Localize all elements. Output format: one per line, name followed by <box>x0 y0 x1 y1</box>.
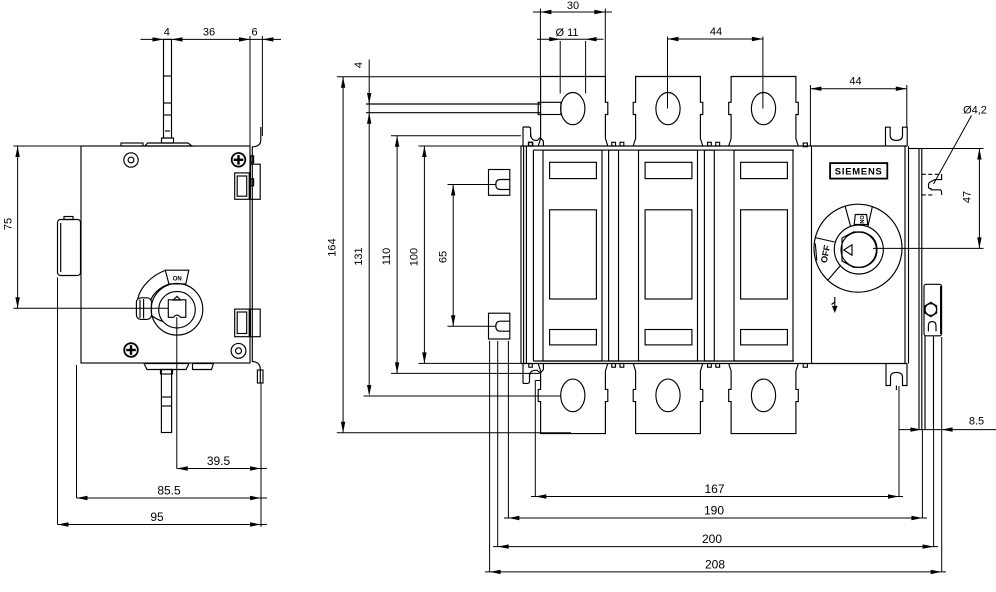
svg-text:OFF: OFF <box>819 244 833 264</box>
front view fuse module 1 <box>543 150 602 361</box>
front view handle OFF flag <box>815 238 840 281</box>
dimension 190 front view <box>504 341 927 520</box>
svg-text:39.5: 39.5 <box>207 454 231 468</box>
dimension 100 front view <box>408 146 521 363</box>
svg-text:4: 4 <box>164 26 170 38</box>
front view fuse rail top <box>533 149 794 151</box>
dimension diameter 11 front view <box>537 27 604 94</box>
dimension 44 handle section <box>810 76 906 147</box>
svg-text:8.5: 8.5 <box>969 416 984 428</box>
svg-text:44: 44 <box>849 76 861 88</box>
front view barrier 1 <box>609 150 619 361</box>
left view bottom DIN clip <box>235 309 260 337</box>
svg-text:164: 164 <box>327 238 339 256</box>
svg-text:4: 4 <box>353 62 365 68</box>
front view top terminal tab 2 <box>633 77 703 147</box>
svg-text:Ø 11: Ø 11 <box>555 27 578 39</box>
svg-text:75: 75 <box>3 218 15 230</box>
left view bottom shaft <box>161 370 173 433</box>
left view top small tab <box>121 143 143 146</box>
svg-text:47: 47 <box>962 191 974 203</box>
left view body outline <box>81 146 252 363</box>
front view handle panel divider <box>811 146 813 364</box>
front view mounting bracket bar edge-on <box>366 102 561 114</box>
dimension 47 front view <box>873 149 984 249</box>
front view left fixing hook upper <box>489 170 510 196</box>
svg-text:65: 65 <box>438 251 450 263</box>
left view plate clip marks <box>251 156 254 186</box>
left view top DIN clip <box>235 164 260 199</box>
dimension 167 front view <box>531 381 903 499</box>
dimension 4-36-6 top of left view <box>141 26 282 146</box>
front view top edge teeth <box>529 142 808 146</box>
dimension 65 front view <box>438 185 496 327</box>
dimension diameter 4.2 leader <box>934 105 987 185</box>
front view body top edge <box>521 145 907 147</box>
front view right plate spring hook <box>922 174 942 195</box>
front view top terminal tab 3 <box>729 77 799 147</box>
left view side lever bump <box>58 217 81 276</box>
svg-text:200: 200 <box>702 532 722 546</box>
front view fuse rail bottom <box>533 360 794 362</box>
front view trip indicator arrow <box>832 297 837 312</box>
dimension 39.5 left view <box>177 317 267 527</box>
front view bottom terminal tab 2 <box>633 364 703 434</box>
front view body bottom edge <box>521 363 907 365</box>
svg-text:ON: ON <box>173 277 182 283</box>
front view left side plate <box>521 146 526 364</box>
left view bottom shaft tab <box>144 364 189 370</box>
front view right clamp block <box>924 284 942 336</box>
svg-text:44: 44 <box>710 26 722 38</box>
front view rotary handle <box>814 204 902 292</box>
svg-text:Ø4,2: Ø4,2 <box>963 105 987 117</box>
front view top-right mounting tab <box>886 127 908 146</box>
dimension 85.5 left view <box>77 365 268 500</box>
svg-text:167: 167 <box>704 482 724 496</box>
dimension 44 between terminals <box>668 26 763 109</box>
dimension 75 left view <box>3 146 169 308</box>
front view handle ON flag <box>845 206 872 226</box>
front view fuse rail left edge <box>532 150 534 361</box>
left view mounting plate top bend <box>252 127 261 147</box>
front view left fixing hook lower <box>489 313 510 339</box>
svg-text:85.5: 85.5 <box>157 484 181 498</box>
dimension 200 front view <box>493 341 938 549</box>
front view bottom-left mounting piece <box>523 364 543 384</box>
svg-text:190: 190 <box>704 504 724 518</box>
svg-text:110: 110 <box>381 248 393 266</box>
svg-text:30: 30 <box>567 0 579 12</box>
dimension 30 front view <box>533 0 612 77</box>
front view top-left mounting piece <box>523 127 543 146</box>
left view screw bottom-right <box>231 343 246 358</box>
svg-text:100: 100 <box>408 248 420 266</box>
front view fuse module 2 <box>639 150 698 361</box>
left view mounting plate bottom bend and foot <box>252 362 263 384</box>
left view screw top-left <box>124 153 138 167</box>
front view right clamp arm <box>925 336 934 430</box>
svg-text:SIEMENS: SIEMENS <box>835 166 883 177</box>
svg-text:95: 95 <box>150 510 164 524</box>
front view SIEMENS label <box>830 163 887 179</box>
left view bottom second tab <box>193 364 214 370</box>
left view top shaft <box>162 39 174 143</box>
dimension 131 front view <box>353 247 561 396</box>
left view handle ON flag <box>165 270 189 284</box>
front view body right edge <box>905 146 909 364</box>
left view screw bottom-left phillips <box>124 343 138 357</box>
front view right mounting plate <box>909 149 922 431</box>
front view bottom terminal tab 1 <box>538 364 608 434</box>
svg-text:ON: ON <box>858 215 864 223</box>
dimension 208 front view <box>485 337 946 574</box>
front view bottom edge teeth <box>529 364 808 368</box>
dimension 110 front view <box>381 136 540 374</box>
front view bottom-right mounting tab <box>886 364 907 391</box>
left view handle lever arm <box>136 271 168 322</box>
svg-text:208: 208 <box>705 557 725 571</box>
svg-text:6: 6 <box>251 26 257 38</box>
front view bottom terminal tab 3 <box>729 364 799 434</box>
dimension 8.5 front view <box>899 416 996 432</box>
dimension 95 left view <box>58 278 268 527</box>
front view fuse module 3 <box>734 150 793 361</box>
dimension 164 front view <box>327 77 572 433</box>
svg-text:131: 131 <box>353 247 365 265</box>
svg-text:36: 36 <box>203 26 215 38</box>
dimension 4 bracket bar front view <box>353 60 371 391</box>
left view rotary handle knob <box>151 284 203 336</box>
front view barrier 2 <box>704 150 714 361</box>
left view screw top-right phillips <box>232 153 246 167</box>
left view top shaft tab <box>145 143 192 146</box>
front view top terminal tab 1 <box>538 77 608 147</box>
